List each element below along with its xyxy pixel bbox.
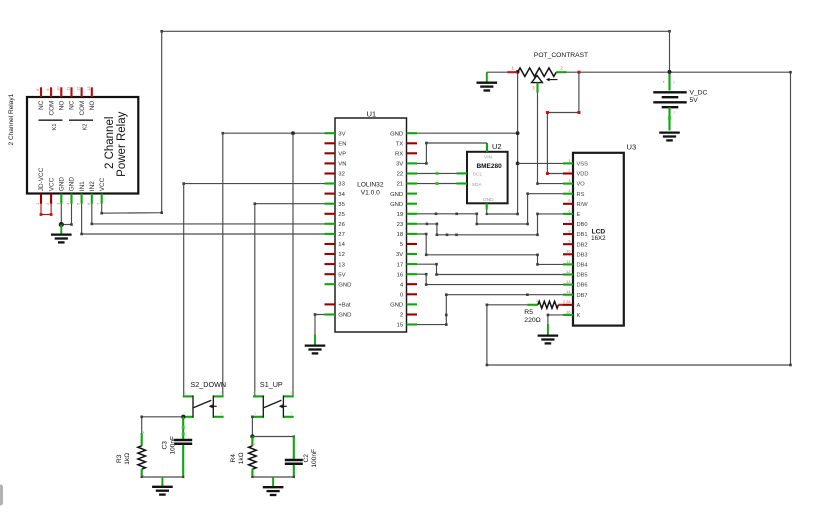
wire 3V down to S2 pin2 [222, 133, 224, 396]
wire U3 K to ground [547, 314, 563, 324]
svg-text:16X2: 16X2 [591, 235, 606, 242]
svg-text:DB5: DB5 [577, 273, 588, 279]
U2 pin stubs [457, 143, 488, 214]
wire U1 GND right to gnd column [417, 132, 518, 134]
node gnd-column VSS [516, 162, 520, 166]
wire pot wiper to U3 VO [536, 93, 563, 185]
svg-text:3V: 3V [396, 252, 403, 258]
wire pot right down to U3 VDD [546, 72, 581, 175]
svg-text:NC: NC [69, 100, 76, 110]
svg-text:1: 1 [673, 111, 675, 115]
node battery top junction [668, 70, 672, 74]
ground U1 left [305, 335, 326, 354]
svg-text:2: 2 [252, 443, 256, 445]
wire U1 3V to switch columns [222, 132, 325, 135]
svg-text:+: + [662, 80, 665, 85]
svg-text:TX: TX [396, 142, 404, 148]
wire relay GND pins to ground [61, 204, 72, 226]
wire gnd column to U2 GND [486, 213, 519, 216]
wire U1 22 to U2 SCL [417, 172, 457, 175]
wire U1 17 to U3 DB5 [417, 263, 563, 276]
svg-text:11: 11 [567, 260, 571, 264]
wire U1 15 to U3 DB7 [417, 293, 563, 326]
svg-text:18: 18 [397, 232, 404, 238]
svg-text:K1: K1 [52, 124, 58, 131]
svg-text:IN2: IN2 [89, 181, 96, 191]
LCD display U3 16X2 body [573, 143, 636, 326]
svg-text:12: 12 [338, 252, 345, 258]
svg-text:16: 16 [397, 272, 404, 278]
svg-text:26: 26 [338, 222, 345, 228]
switch S1_UP [253, 380, 294, 418]
ground S2 RC [152, 477, 173, 495]
wire relay IN1 to U1 pin27 [80, 204, 324, 236]
svg-text:C2: C2 [303, 454, 310, 463]
svg-text:5: 5 [568, 199, 570, 203]
svg-text:SCL: SCL [473, 172, 483, 178]
svg-text:17: 17 [397, 262, 404, 268]
capacitor C2 100nF [285, 437, 318, 478]
wire U1 3V right to U2 VIN [417, 142, 487, 165]
resistor R5 220ohm [486, 299, 563, 324]
svg-text:100nF: 100nF [169, 436, 176, 455]
svg-text:33: 33 [338, 182, 345, 188]
wire S1 pin3 down to junction [251, 416, 254, 437]
svg-text:GND: GND [390, 192, 403, 198]
ground battery [659, 133, 680, 141]
wire R3 C3 bottom [141, 476, 185, 478]
relay part label 2 Channel Relay1 [8, 93, 15, 145]
svg-text:2 28: 2 28 [563, 300, 570, 304]
svg-text:1kΩ: 1kΩ [124, 453, 131, 465]
wire gnd column vertical [517, 72, 519, 214]
svg-text:25: 25 [338, 212, 345, 218]
svg-text:GND: GND [390, 131, 403, 137]
svg-text:R3: R3 [116, 454, 123, 463]
scrollbar fragment left edge [0, 485, 3, 506]
relay top pins 8-13 NC COM NO NC COM NO [35, 86, 96, 116]
svg-text:27: 27 [338, 232, 345, 238]
svg-text:LOLIN32: LOLIN32 [357, 182, 384, 189]
svg-text:10: 10 [566, 250, 570, 254]
svg-text:7: 7 [568, 219, 570, 223]
svg-text:SDA: SDA [472, 182, 483, 188]
svg-text:DB6: DB6 [577, 283, 588, 289]
wire U1 16 to U3 DB6 [417, 273, 563, 286]
relay coil K1 label [39, 120, 63, 130]
node 3V junction [291, 131, 295, 135]
svg-text:VSS: VSS [577, 162, 589, 168]
svg-text:IN1: IN1 [79, 181, 86, 191]
wire U1 pin33 to S2 pin1 [182, 182, 324, 396]
svg-text:10: 10 [55, 86, 60, 91]
svg-text:GND: GND [483, 197, 494, 203]
svg-text:VCC: VCC [99, 177, 106, 191]
svg-text:1: 1 [568, 159, 570, 163]
svg-text:12: 12 [566, 270, 570, 274]
node gnd-column top [516, 70, 520, 74]
wire S2 pin3 to R3 [140, 416, 182, 434]
wire relay VCC pin7 up to 5V top rail [100, 31, 163, 214]
ground U3 K [538, 324, 559, 343]
svg-text:R5: R5 [524, 309, 533, 316]
svg-text:NC: NC [38, 100, 45, 110]
svg-text:2: 2 [568, 169, 570, 173]
svg-text:+Bat: +Bat [338, 303, 351, 309]
svg-text:R4: R4 [230, 454, 237, 463]
wire gnd column to U3 VSS [518, 162, 563, 164]
svg-text:1: 1 [536, 299, 538, 303]
svg-text:GND: GND [390, 202, 403, 208]
svg-text:1kΩ: 1kΩ [238, 452, 245, 464]
resistor R4 1kohm [230, 437, 256, 478]
wire U1 23 to U3 E [417, 213, 563, 237]
svg-text:A: A [577, 303, 581, 309]
svg-text:2: 2 [400, 313, 403, 319]
wire pot right to 5V rail and battery [567, 71, 791, 73]
node gnd-column U1GND [516, 131, 520, 135]
wire junction to C2 top [252, 435, 295, 437]
svg-text:EN: EN [338, 142, 346, 148]
svg-text:21: 21 [397, 182, 404, 188]
svg-text:16: 16 [566, 310, 570, 314]
svg-text:S1_UP: S1_UP [260, 380, 283, 389]
svg-text:E: E [577, 212, 581, 218]
svg-text:GND: GND [338, 282, 351, 288]
resistor R3 1kohm [116, 431, 145, 477]
svg-text:DB0: DB0 [577, 222, 588, 228]
svg-text:5V: 5V [690, 97, 699, 104]
svg-text:GND: GND [390, 303, 403, 309]
svg-text:POT_CONTRAST: POT_CONTRAST [534, 52, 588, 59]
svg-text:VDD: VDD [577, 172, 589, 178]
svg-text:13: 13 [86, 86, 91, 91]
wire U1 19 to U3 RS [417, 192, 563, 225]
relay bottom pins 1-7 JD-VCC VCC GND GND IN1 IN2 VCC [35, 167, 106, 204]
wire U1 21 to U2 SDA [417, 182, 457, 185]
svg-text:K2: K2 [83, 124, 89, 131]
wire right edge 5V down-rail [486, 71, 792, 366]
svg-text:NO: NO [89, 101, 96, 111]
U3 pins VSS VDD VO RS R/W E DB0-DB7 A K [563, 159, 589, 319]
microcontroller U1 LOLIN32 body [335, 109, 407, 332]
svg-text:BME280: BME280 [476, 163, 502, 170]
svg-text:3V: 3V [338, 131, 345, 137]
wire 5V top rail [160, 30, 670, 33]
svg-text:NO: NO [58, 101, 65, 111]
relay coil K2 label [69, 120, 93, 130]
wire top rail down to battery junction [669, 31, 671, 72]
svg-text:Power Relay: Power Relay [116, 111, 128, 176]
svg-text:V1.0.0: V1.0.0 [361, 189, 380, 196]
svg-text:C3: C3 [162, 441, 169, 450]
svg-text:DB7: DB7 [577, 293, 588, 299]
svg-text:4: 4 [568, 189, 570, 193]
wire U1 left GND to ground [314, 313, 325, 334]
svg-text:22: 22 [397, 172, 404, 178]
node relay ground junction [59, 222, 64, 227]
svg-text:VP: VP [338, 152, 346, 158]
svg-text:GND: GND [58, 177, 65, 192]
svg-text:DB2: DB2 [577, 242, 588, 248]
svg-text:2 Channel Relay1: 2 Channel Relay1 [8, 93, 15, 145]
switch S2_DOWN [183, 380, 226, 418]
wire U1 18 to U3 DB4 [417, 233, 563, 266]
2-channel relay module RELAY1 body [27, 97, 138, 194]
sensor U2 BME280 body [467, 142, 508, 203]
wire relay IN2 to U1 pin26 [91, 204, 325, 225]
svg-text:COM: COM [48, 101, 55, 116]
wire relay JD-VCC to VCC jumper [40, 204, 53, 216]
battery V_DC 5V [653, 72, 707, 131]
svg-text:2: 2 [141, 431, 145, 433]
svg-text:32: 32 [338, 172, 345, 178]
svg-text:15: 15 [397, 323, 404, 329]
node pot right junction [577, 71, 580, 74]
svg-text:12: 12 [76, 86, 81, 91]
wire 3V junction down to S1 pin2 [292, 133, 294, 396]
U1 left pins 3V EN VP VN 32 33 34 35 25 26 27 14 12 13 5V GND +Bat GND [325, 131, 352, 318]
svg-text:2 Channel: 2 Channel [104, 117, 116, 169]
svg-text:13: 13 [566, 280, 570, 284]
svg-text:VN: VN [338, 162, 346, 168]
svg-text:GND: GND [338, 313, 351, 319]
svg-text:19: 19 [397, 212, 404, 218]
svg-text:DB4: DB4 [577, 263, 588, 269]
svg-text:14: 14 [566, 290, 570, 294]
svg-text:100nF: 100nF [311, 449, 318, 468]
svg-text:RS: RS [577, 192, 585, 198]
svg-text:U2: U2 [492, 142, 502, 151]
svg-text:RX: RX [395, 152, 403, 158]
svg-text:V_DC: V_DC [690, 90, 708, 97]
svg-text:35: 35 [338, 202, 345, 208]
svg-text:5V: 5V [338, 272, 345, 278]
U1 right pins GND TX RX 3V 22 21 GND GND 19 23 18 5 3V 17 16 4 0 GND 2 15 [390, 131, 417, 328]
svg-text:COM: COM [79, 101, 86, 116]
ground pot left [477, 72, 498, 90]
svg-text:U1: U1 [366, 109, 376, 118]
svg-text:VO: VO [577, 182, 586, 188]
node S1 RC junction [250, 434, 254, 438]
svg-text:VIN: VIN [484, 155, 493, 161]
svg-text:DB1: DB1 [577, 232, 588, 238]
svg-text:3V: 3V [396, 162, 403, 168]
svg-text:23: 23 [397, 222, 404, 228]
svg-text:8: 8 [568, 230, 570, 234]
svg-text:K: K [577, 313, 581, 319]
capacitor C3 100nF [162, 417, 193, 477]
svg-text:9: 9 [568, 240, 570, 244]
wire R4 C2 bottom [251, 476, 295, 478]
svg-text:R/W: R/W [577, 202, 589, 208]
svg-text:U3: U3 [627, 143, 637, 152]
svg-text:13: 13 [338, 262, 345, 268]
svg-text:14: 14 [338, 242, 345, 248]
svg-text:2: 2 [673, 81, 675, 85]
svg-text:6: 6 [568, 209, 570, 213]
svg-text:34: 34 [338, 192, 345, 198]
svg-text:JD-VCC: JD-VCC [38, 167, 45, 191]
ground S1 RC [263, 477, 284, 495]
ground relay [51, 225, 72, 243]
wire U1 pin35 to S1 pin1 [254, 202, 325, 396]
potentiometer POT_CONTRAST [487, 52, 588, 93]
svg-text:3: 3 [568, 179, 570, 183]
node S2 bottom junction [181, 415, 185, 419]
svg-text:S2_DOWN: S2_DOWN [191, 380, 227, 389]
svg-text:VCC: VCC [48, 177, 55, 191]
svg-text:DB3: DB3 [577, 252, 588, 258]
svg-text:220Ω: 220Ω [524, 317, 540, 324]
svg-text:GND: GND [69, 177, 76, 192]
